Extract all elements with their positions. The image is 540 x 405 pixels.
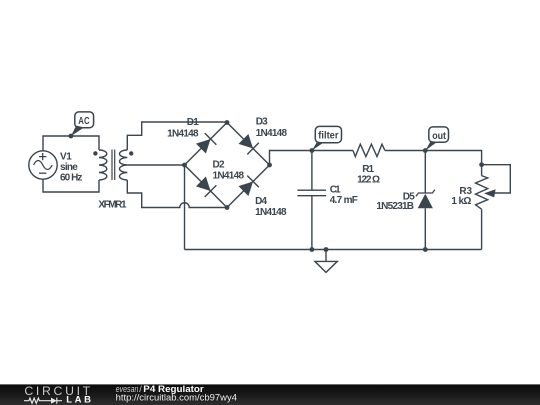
logo mini schematic xyxy=(24,398,62,404)
svg-text:1N4148: 1N4148 xyxy=(255,207,287,218)
transformer XFMR1 secondary coil xyxy=(120,150,128,180)
junction C1 bottom xyxy=(310,247,315,252)
junction bridge right xyxy=(267,163,272,168)
wire bridge left vertex down xyxy=(184,165,186,250)
svg-text:AC: AC xyxy=(78,116,89,127)
junction ground stub xyxy=(324,247,329,252)
wire primary loop bottom xyxy=(43,179,99,192)
transformer phase dot secondary xyxy=(129,151,133,155)
node out junction dot xyxy=(423,148,428,153)
wire secondary center tap to bridge left xyxy=(127,164,184,166)
transformer core xyxy=(112,150,115,181)
diode D2 symbol xyxy=(195,176,216,197)
node filter junction dot xyxy=(310,148,315,153)
svg-text:LAB: LAB xyxy=(66,395,91,405)
svg-text:1N4148: 1N4148 xyxy=(256,128,288,139)
svg-text:1N4148: 1N4148 xyxy=(167,128,199,139)
svg-text:sine: sine xyxy=(60,162,78,173)
node label AC xyxy=(71,112,94,136)
R3 wiper arrow xyxy=(484,189,496,197)
svg-text:1 kΩ: 1 kΩ xyxy=(451,196,471,207)
svg-text:D3: D3 xyxy=(256,116,268,127)
junction bridge top xyxy=(225,120,230,125)
node label filter xyxy=(312,126,342,150)
diode D1 symbol xyxy=(195,133,216,154)
svg-text:out: out xyxy=(432,131,446,142)
diode D3 edge xyxy=(227,123,270,166)
wire R3 bottom xyxy=(481,209,483,249)
wire primary loop top xyxy=(43,136,99,151)
node label out xyxy=(425,127,448,151)
voltage source V1 xyxy=(29,151,57,179)
junction D5 bottom xyxy=(423,247,428,252)
diode D3 symbol xyxy=(238,133,259,154)
svg-text:4.7 mF: 4.7 mF xyxy=(330,195,358,206)
svg-text:XFMR1: XFMR1 xyxy=(98,200,127,211)
svg-text:V1: V1 xyxy=(60,151,72,162)
svg-text:1N4148: 1N4148 xyxy=(213,171,245,182)
svg-text:122 Ω: 122 Ω xyxy=(357,175,380,186)
wire secondary bottom lead to bridge bottom with hop xyxy=(127,180,227,208)
ground xyxy=(315,250,337,273)
junction bridge bottom xyxy=(225,205,230,210)
wire top rail R1 to R3 xyxy=(385,151,482,176)
svg-text:R1: R1 xyxy=(362,164,374,175)
junction R3 wiper tap xyxy=(479,162,484,167)
wire bridge right to top rail xyxy=(270,151,354,166)
svg-text:filter: filter xyxy=(318,130,338,141)
svg-text:D1: D1 xyxy=(187,117,199,128)
transformer XFMR1 primary coil xyxy=(99,150,107,180)
diode D1 edge xyxy=(185,123,228,166)
svg-text:60 Hz: 60 Hz xyxy=(60,173,82,184)
resistor R1 xyxy=(353,144,385,156)
zener diode D5 xyxy=(416,151,435,250)
wire secondary top lead to bridge top xyxy=(127,122,227,150)
node AC junction dot xyxy=(69,134,74,139)
junction bridge left xyxy=(182,163,187,168)
svg-text:D4: D4 xyxy=(255,196,267,207)
potentiometer R3 zigzag xyxy=(476,176,488,210)
svg-text:http://circuitlab.com/cb97wy4: http://circuitlab.com/cb97wy4 xyxy=(116,393,237,403)
diode D2 edge xyxy=(185,165,228,208)
diode D4 edge xyxy=(227,165,270,208)
capacitor C1 xyxy=(297,151,326,250)
wire bottom rail xyxy=(185,249,482,251)
svg-text:1N5231B: 1N5231B xyxy=(376,201,414,212)
diode D4 symbol xyxy=(238,176,259,197)
svg-text:D2: D2 xyxy=(213,160,225,171)
transformer phase dot primary xyxy=(93,151,97,155)
wire R3 wiper loop xyxy=(482,165,511,193)
